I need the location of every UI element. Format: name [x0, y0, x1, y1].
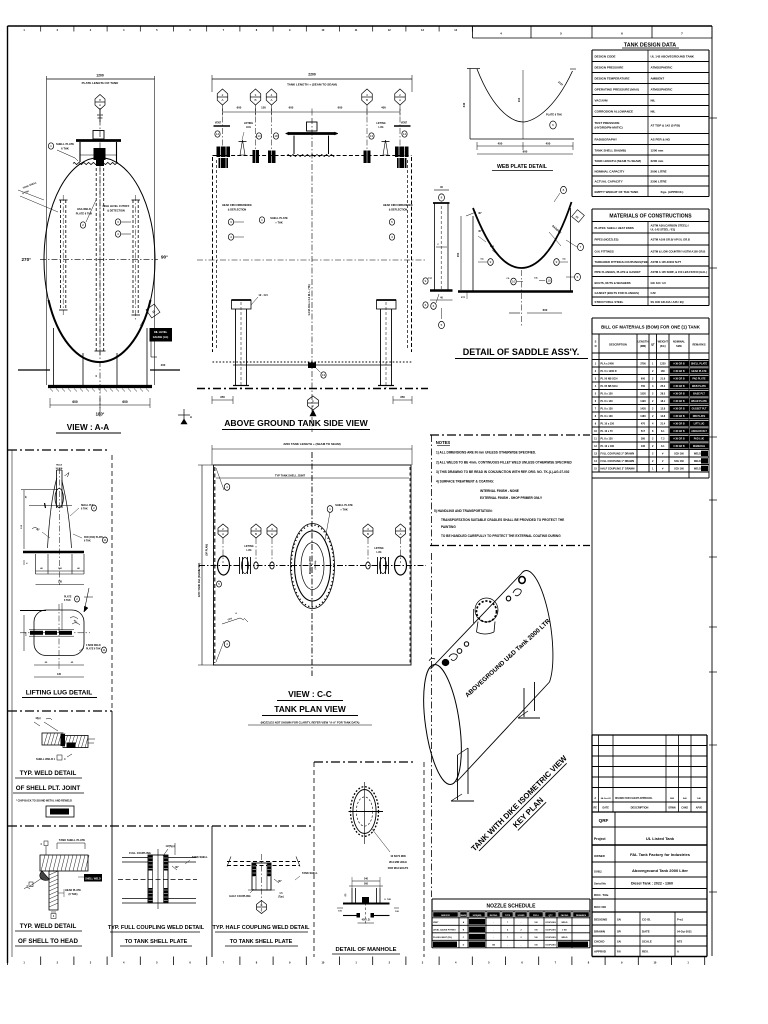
side view title: [222, 418, 370, 430]
svg-text:SCHED: SCHED: [517, 915, 525, 917]
svg-text:(OF PLAN): (OF PLAN): [206, 544, 209, 556]
title block project row: [592, 836, 707, 845]
svg-text:OIL LEVEL: OIL LEVEL: [154, 330, 168, 334]
plan view hex callouts: [218, 524, 406, 563]
svg-text:ANCHOR BLT: ANCHOR BLT: [691, 430, 707, 433]
svg-text:APPRVD: APPRVD: [594, 950, 606, 954]
svg-text:QT: QT: [651, 343, 655, 347]
svg-text:DESIGN PRESSURE: DESIGN PRESSURE: [595, 66, 624, 70]
svg-text:10: 10: [512, 280, 516, 284]
svg-text:540: 540: [364, 878, 369, 881]
shell plate joint weld callout: [36, 754, 72, 761]
svg-text:RIB PLATE: RIB PLATE: [693, 415, 706, 418]
view A-A internal dip pipe center: [95, 168, 106, 355]
svg-text:PLATES: SHELL/ HEAT ENDS: PLATES: SHELL/ HEAT ENDS: [595, 226, 634, 230]
svg-text:SIZE: SIZE: [676, 344, 682, 348]
svg-text:DESCRIPTION: DESCRIPTION: [609, 343, 627, 347]
svg-text:LEVEL GAUGE FITTING: LEVEL GAUGE FITTING: [433, 929, 456, 932]
view A-A manhole assembly: [76, 131, 121, 167]
vertical divider right of full coupling detail: [313, 762, 315, 957]
svg-text:FULL COUPLING 2" DRAWN: FULL COUPLING 2" DRAWN: [601, 452, 635, 455]
plan view manhole rings: [291, 524, 335, 609]
view A-A vertical centerline: [99, 108, 101, 418]
half coupling shell dashed lines: [227, 857, 300, 867]
svg-text:A: A: [594, 797, 596, 800]
tank design data table: [592, 43, 709, 197]
manhole detail bolts note: [372, 829, 409, 870]
svg-text:Aboveground Tank 2000 Liter: Aboveground Tank 2000 Liter: [632, 868, 688, 873]
side view leg leader label: [251, 293, 268, 305]
shell to head top leader: [40, 838, 85, 855]
svg-text:1200: 1200: [96, 74, 104, 78]
vertical divider right of shell-to-head detail: [211, 826, 213, 957]
svg-text:* CHIP BACK TO SOUND METAL AND: * CHIP BACK TO SOUND METAL AND REWELD: [16, 800, 72, 803]
svg-text:NOMINAL CAPACITY: NOMINAL CAPACITY: [595, 169, 625, 173]
svg-text:Diesel Tank : 2022 - 1360: Diesel Tank : 2022 - 1360: [631, 882, 673, 886]
nozzle schedule table: [432, 899, 590, 948]
svg-text:A: A: [221, 98, 223, 102]
svg-text:ASTM A 105-3000# N.PT: ASTM A 105-3000# N.PT: [651, 260, 682, 264]
svg-text:# 36 GR B: # 36 GR B: [673, 362, 685, 365]
plan view horizontal centerline: [199, 565, 426, 567]
svg-text:STRUCTURAL STEEL: STRUCTURAL STEEL: [595, 300, 624, 304]
view A-A title: [56, 423, 121, 433]
svg-text:(6 THK): (6 THK): [69, 893, 78, 896]
svg-text:FAI: FAI: [697, 797, 701, 800]
svg-text:# 36 GR B: # 36 GR B: [673, 407, 685, 410]
svg-text:LUG: LUG: [376, 551, 381, 554]
svg-text:MANHOLE Ø500: MANHOLE Ø500: [309, 555, 312, 574]
svg-text:PL 8 x 140: PL 8 x 140: [601, 400, 614, 403]
title block doc no row: [592, 905, 707, 912]
svg-text:Ø14 MM HOLE: Ø14 MM HOLE: [389, 860, 407, 864]
svg-text:UL Listed Tank: UL Listed Tank: [646, 836, 675, 841]
side view callout leader centerlines: [223, 105, 401, 150]
saddle assembly bottom dimension 600: [509, 308, 562, 313]
svg-text:DESIGN TEMPERATURE: DESIGN TEMPERATURE: [595, 77, 630, 81]
view A-A saddle support legs: [54, 328, 148, 385]
svg-text:TYP: TYP: [428, 278, 433, 280]
vertical divider right of lifting lug column: [111, 455, 113, 957]
svg-text:B: B: [367, 532, 369, 536]
svg-text:PLATE 6 THK: PLATE 6 THK: [86, 648, 101, 651]
side view lifting lug left with label: [239, 122, 254, 155]
svg-text:ASTM & LOW COUNTRY/ ASTM A105: ASTM & LOW COUNTRY/ ASTM A105 GR.B: [651, 249, 706, 253]
svg-text:60°: 60°: [175, 866, 179, 869]
svg-text:AMBIENT: AMBIENT: [651, 77, 665, 81]
svg-text:1190: 1190: [640, 400, 646, 403]
svg-text:PL 8 x 130: PL 8 x 130: [601, 437, 614, 440]
svg-text:WEB PLATE DETAIL: WEB PLATE DETAIL: [497, 164, 548, 170]
svg-text:14: 14: [216, 132, 220, 136]
svg-text:1180: 1180: [640, 415, 646, 418]
svg-text:& DEFLECTION: & DEFLECTION: [228, 209, 247, 212]
svg-text:PLA x 2400: PLA x 2400: [601, 362, 615, 365]
isometric view title rotated: [469, 753, 579, 863]
svg-text:SHELL PLATE: SHELL PLATE: [270, 216, 288, 220]
svg-text:SMI: SMI: [670, 798, 674, 800]
svg-text:1200 mm: 1200 mm: [651, 148, 664, 152]
plan view top dimension 2200: [212, 442, 412, 465]
svg-text:6 THK: 6 THK: [64, 600, 71, 602]
svg-text:350: 350: [400, 395, 405, 399]
svg-text:VACUUM: VACUUM: [595, 99, 608, 103]
svg-text:(KG): (KG): [660, 344, 666, 348]
svg-text:(NOZZLES NOT SHOWN FOR CLARITY: (NOZZLES NOT SHOWN FOR CLARITY, REFER VI…: [261, 721, 360, 725]
svg-text:18: 18: [274, 134, 278, 138]
shell plate joint weld note box: [46, 806, 74, 817]
svg-text:130: 130: [57, 673, 62, 676]
svg-text:ASTM A 105 SORF, & 150 LBS FF#: ASTM A 105 SORF, & 150 LBS FF#150 (GAL): [651, 270, 707, 274]
svg-text:180°: 180°: [96, 412, 105, 417]
svg-text:(8): (8): [345, 893, 347, 896]
svg-text:FULL COUPLING: FULL COUPLING: [129, 851, 151, 855]
half coupling body: [248, 854, 275, 912]
side view saddle wear plate zigzag: [287, 155, 334, 157]
title block outer border: [592, 735, 707, 957]
svg-text:COUPLING: COUPLING: [545, 922, 556, 924]
side view tank top dashed line: [213, 155, 412, 157]
svg-text:900: 900: [523, 150, 528, 154]
manhole detail neck section: [343, 888, 392, 904]
view A-A base plate: [48, 387, 152, 392]
web plate detail labels: [462, 80, 565, 129]
full coupling body: [148, 849, 168, 909]
isometric tank right leg: [518, 682, 540, 718]
side view dimension 2200 top: [212, 73, 412, 93]
svg-text:A: A: [399, 532, 401, 536]
svg-text:470: 470: [641, 422, 646, 425]
svg-text:600: 600: [543, 308, 548, 312]
svg-text:A: A: [399, 98, 401, 102]
materials of constructions table: [592, 209, 709, 306]
svg-text:RADIOGRAPHY: RADIOGRAPHY: [595, 138, 618, 142]
view A-A label level gauge balloons 3 4: [103, 204, 131, 237]
svg-text:600: 600: [641, 377, 646, 380]
full coupling label: [129, 843, 175, 862]
svg-text:450: 450: [546, 142, 551, 146]
svg-text:TANK SHELL: TANK SHELL: [302, 872, 318, 875]
svg-text:ATMOSPHERIC: ATMOSPHERIC: [651, 88, 674, 92]
svg-text:GAUGE (LG): GAUGE (LG): [153, 335, 169, 339]
svg-text:GASKET (BOLTS FOR FLANGES): GASKET (BOLTS FOR FLANGES): [595, 291, 639, 295]
side view tank bottom dotted line: [213, 361, 412, 363]
svg-text:VIEW : A-A: VIEW : A-A: [67, 423, 110, 432]
svg-text:OWNER: OWNER: [594, 854, 605, 858]
svg-text:FOR M12 BOLTS: FOR M12 BOLTS: [388, 866, 409, 870]
svg-text:SS 400/ GR.43A / A36 / EQ: SS 400/ GR.43A / A36 / EQ: [651, 300, 684, 304]
svg-text:SHELL WELD: SHELL WELD: [85, 878, 101, 881]
svg-text:DESIGN CODE: DESIGN CODE: [595, 54, 616, 58]
isometric tank far head arc: [521, 570, 553, 682]
full coupling bevel note: [172, 866, 179, 870]
side view tank left head dashed edges: [213, 157, 217, 352]
svg-text:DATE: DATE: [642, 930, 650, 934]
svg-text:TANK DESIGN DATA: TANK DESIGN DATA: [624, 43, 677, 49]
svg-text:BILL OF MATERIALS (BOM) FOR ON: BILL OF MATERIALS (BOM) FOR ONE (1) TANK: [601, 325, 701, 330]
svg-text:PAD (R10) PLATE: PAD (R10) PLATE: [84, 536, 104, 539]
isometric tank body text: [464, 618, 552, 700]
manhole detail bolt circle rings: [349, 782, 384, 844]
svg-text:TANK LENGTH + (SEAM TO SEAM): TANK LENGTH + (SEAM TO SEAM): [287, 83, 337, 87]
shell plate joint weld leaders: [34, 717, 58, 731]
svg-text:QRF: QRF: [599, 818, 609, 823]
side view nozzle spacing dimension line: [223, 106, 401, 116]
svg-text:TANK SHELL DIA(MB): TANK SHELL DIA(MB): [595, 148, 626, 152]
svg-text:TYP TANK SHELL JOINT: TYP TANK SHELL JOINT: [275, 474, 306, 478]
divider above lifting lug detail: [8, 449, 110, 451]
svg-text:PAINTING: PAINTING: [441, 525, 456, 529]
lifting lug labels right: [32, 505, 107, 543]
svg-text:SHELL PLATE: SHELL PLATE: [56, 142, 74, 146]
lifting lug detail title: [22, 690, 97, 698]
svg-text:COUPLING: COUPLING: [545, 945, 556, 947]
view A-A vent pipe: [97, 110, 103, 122]
manhole detail flange lines below: [337, 903, 400, 924]
svg-text:400: 400: [381, 106, 386, 110]
svg-text:270°: 270°: [21, 257, 31, 262]
web plate detail dimensions: [477, 142, 573, 155]
svg-text:ABOVE GROUND TANK SIDE VIEW: ABOVE GROUND TANK SIDE VIEW: [224, 418, 368, 428]
svg-text:GR. 8.8 / 4.6: GR. 8.8 / 4.6: [651, 281, 667, 285]
svg-text:STF: STF: [461, 297, 466, 299]
svg-text:PROJ.: PROJ.: [533, 915, 539, 917]
svg-text:CAF: CAF: [651, 291, 657, 295]
lifting lug dimension lines upper: [21, 490, 72, 550]
side view right margin balloons: [423, 278, 433, 308]
svg-text:SCH 160: SCH 160: [674, 467, 684, 470]
plan view shell joint line: [216, 474, 409, 479]
title block owner row: [592, 852, 707, 862]
plan view vertical centerline: [311, 452, 313, 676]
svg-text:PL 8 x 130: PL 8 x 130: [601, 415, 614, 418]
svg-text:CO ID.: CO ID.: [642, 918, 651, 922]
svg-text:PLATE LENGTH OF TANK: PLATE LENGTH OF TANK: [82, 81, 120, 85]
svg-text:2000 LITRE: 2000 LITRE: [651, 169, 667, 173]
view A-A ground lines: [18, 363, 180, 370]
svg-text:FILLING INLET (FIL): FILLING INLET (FIL): [433, 937, 452, 939]
svg-text:1520: 1520: [640, 392, 646, 395]
svg-text:HALF COUPLING: HALF COUPLING: [229, 894, 250, 898]
svg-text:TYP. WELD DETAIL: TYP. WELD DETAIL: [20, 770, 77, 777]
lifting lug base dimensions: [36, 567, 85, 585]
svg-text:SUBJ.: SUBJ.: [594, 870, 602, 874]
svg-text:10 NO'S MIN: 10 NO'S MIN: [390, 854, 405, 858]
svg-text:PLATE 6 THK: PLATE 6 THK: [546, 114, 562, 117]
svg-text:PL 50 NB SCH: PL 50 NB SCH: [601, 377, 618, 380]
svg-text:WELD: WELD: [562, 937, 568, 939]
svg-text:PLATE: PLATE: [64, 596, 72, 599]
svg-text:# 36 GR B: # 36 GR B: [673, 392, 685, 395]
svg-text:HEAD PLATE: HEAD PLATE: [691, 370, 707, 373]
svg-text:21.8: 21.8: [660, 377, 665, 380]
svg-text:B: B: [254, 98, 256, 102]
svg-text:CHCKD: CHCKD: [594, 940, 604, 944]
svg-text:PIPES (NOZZLES): PIPES (NOZZLES): [595, 238, 619, 242]
svg-text:SIZE(NB): SIZE(NB): [473, 915, 482, 917]
svg-text:& DETECTION: & DETECTION: [107, 209, 125, 213]
svg-text:4) SURFACE TREATMENT & COATIN: 4) SURFACE TREATMENT & COATING:: [436, 480, 494, 484]
svg-text:1/2(Typ): 1/2(Typ): [166, 845, 175, 848]
svg-text:14: 14: [403, 132, 407, 136]
svg-text:LIFT LUG: LIFT LUG: [694, 422, 705, 425]
plan view tank rectangle: [214, 465, 412, 665]
shell plate joint hatched plates: [42, 733, 95, 748]
svg-text:WEIGHT: WEIGHT: [658, 340, 669, 344]
svg-text:VIEW : C-C: VIEW : C-C: [288, 689, 332, 699]
svg-text:QTY: QTY: [548, 915, 553, 917]
svg-text:11: 11: [103, 538, 106, 542]
svg-text:HSA WELD: HSA WELD: [77, 207, 91, 211]
svg-text:NIL: NIL: [651, 99, 656, 103]
svg-text:OF SHELL TO HEAD: OF SHELL TO HEAD: [18, 938, 78, 945]
svg-text:12.8: 12.8: [660, 407, 665, 410]
svg-text:450: 450: [498, 142, 503, 146]
side view right support leg: [377, 300, 397, 388]
svg-text:SAI: SAI: [683, 797, 687, 800]
svg-text:NIL: NIL: [651, 110, 656, 114]
svg-text:DOC. Title: DOC. Title: [594, 893, 609, 897]
svg-text:RATING: RATING: [490, 914, 498, 917]
svg-text:PL 6 x 1200 D: PL 6 x 1200 D: [601, 370, 617, 373]
svg-text:LIFTING LUG DETAIL: LIFTING LUG DETAIL: [26, 690, 93, 697]
svg-text:400: 400: [161, 363, 166, 367]
svg-text:LUG: LUG: [378, 126, 383, 129]
svg-text:30°: 30°: [478, 212, 482, 215]
svg-text:B: B: [366, 98, 368, 102]
svg-text:28.5: 28.5: [660, 392, 665, 395]
notes text: [434, 440, 573, 538]
svg-text:# 36 GR B: # 36 GR B: [673, 377, 685, 380]
svg-text:3) THIS DRAWING TO BE READ IN: 3) THIS DRAWING TO BE READ IN CONJUNCTIO…: [436, 470, 570, 474]
svg-text:A: A: [271, 532, 273, 536]
svg-text:150: 150: [456, 252, 460, 257]
side view left support leg: [232, 300, 252, 388]
svg-text:PAD PLATE: PAD PLATE: [692, 377, 706, 380]
svg-text:14.8: 14.8: [660, 415, 665, 418]
saddle side elevation column: [430, 185, 453, 329]
side view head circumference label right: [383, 204, 413, 240]
svg-text:11: 11: [102, 648, 105, 652]
svg-text:N: N: [595, 344, 597, 348]
svg-text:SAI: SAI: [617, 941, 621, 944]
left inner border line: [11, 450, 13, 957]
side view manhole assembly center: [286, 122, 339, 154]
svg-text:TRANSPORTATION SUITABLE CRADLE: TRANSPORTATION SUITABLE CRADLES SHALL BE…: [441, 518, 564, 522]
svg-text:LIFTING: LIFTING: [374, 547, 383, 550]
svg-text:LENGTH: LENGTH: [638, 340, 649, 344]
svg-text:ASTM A106 GR.B/ API 5L GR.B: ASTM A106 GR.B/ API 5L GR.B: [651, 238, 690, 242]
saddle assembly main curve: [458, 202, 573, 292]
side view right vent nozzle bar: [394, 123, 411, 127]
svg-text:4 SIDE WELD: 4 SIDE WELD: [86, 644, 101, 647]
svg-text:FACING: FACING: [561, 914, 569, 917]
svg-text:230: 230: [58, 581, 63, 584]
svg-text:UL 142 ABOVEGROUND TANK: UL 142 ABOVEGROUND TANK: [651, 54, 695, 58]
svg-text:REMARKS: REMARKS: [692, 343, 705, 347]
divider above weld details row: [8, 825, 314, 827]
shell to head bottom mark: [51, 912, 56, 919]
svg-text:LUG: LUG: [246, 126, 251, 129]
side view bottom left dimension: [212, 395, 233, 404]
svg-text:SHELL WELD: SHELL WELD: [36, 757, 53, 761]
side view shell plate balloon center: [259, 216, 288, 225]
svg-text:BOLTS, NUTS & WASHERS: BOLTS, NUTS & WASHERS: [595, 281, 631, 285]
plan view small balloon 5: [217, 581, 222, 587]
lifting lug front view eye plate: [55, 465, 69, 509]
svg-text:NOMINAL: NOMINAL: [673, 340, 686, 344]
view A-A rotated tag 15: [140, 304, 160, 326]
side view vertical centerline: [311, 118, 313, 432]
svg-text:# 36 GR B: # 36 GR B: [673, 422, 685, 425]
svg-text:DRWN: DRWN: [668, 808, 675, 810]
svg-text:A: A: [677, 950, 679, 954]
svg-text:FAI: FAI: [617, 951, 621, 954]
svg-text:2300 LITRE: 2300 LITRE: [651, 180, 667, 184]
view A-A dimension 1200 top: [47, 74, 155, 386]
svg-text:# 36 GR B: # 36 GR B: [673, 445, 685, 448]
svg-text:RE: RE: [594, 807, 598, 810]
svg-text:6 THK: 6 THK: [81, 509, 88, 511]
half coupling hex marker: [257, 901, 267, 914]
svg-text:+ THK: + THK: [275, 221, 283, 225]
svg-text:500: 500: [364, 883, 369, 886]
svg-text:# 36 GR B: # 36 GR B: [673, 400, 685, 403]
svg-text:TO TANK SHELL PLATE: TO TANK SHELL PLATE: [230, 939, 293, 945]
shell to head weld fillet: [24, 871, 50, 889]
saddle assembly centerline: [521, 270, 523, 327]
svg-text:TO TANK SHELL PLATE: TO TANK SHELL PLATE: [125, 939, 188, 945]
svg-text:7.2: 7.2: [661, 437, 665, 440]
svg-text:340: 340: [462, 102, 466, 107]
svg-text:SAI: SAI: [617, 919, 621, 922]
svg-text:OPERATING PRESSURE (MAX): OPERATING PRESSURE (MAX): [595, 88, 639, 92]
svg-text:DATE: DATE: [603, 807, 610, 810]
isometric tank body edges: [431, 574, 550, 782]
lifting lug gusset profile: [48, 478, 72, 548]
svg-text:210: 210: [517, 97, 521, 102]
view A-A diagonal leader tank shell note: [18, 181, 58, 212]
svg-text:LIFTING: LIFTING: [244, 122, 253, 125]
right column vertical border continuation: [591, 478, 593, 735]
half coupling title: [213, 925, 311, 946]
svg-text:13: 13: [257, 134, 261, 138]
svg-text:O.N. FITTINGS: O.N. FITTINGS: [595, 249, 614, 253]
svg-text:SCH 160: SCH 160: [674, 452, 684, 455]
svg-text:2200 mm: 2200 mm: [651, 159, 664, 163]
svg-text:TO BE HANDLED CAREFULLY TO PRO: TO BE HANDLED CAREFULLY TO PROTECT THE E…: [441, 534, 561, 538]
svg-text:THREADED FITTINGS-COUPLINGS(TB: THREADED FITTINGS-COUPLINGS(TBE): [595, 260, 649, 264]
svg-text:10: 10: [547, 279, 551, 283]
svg-text:# 36 GR B: # 36 GR B: [673, 437, 685, 440]
svg-text:DETAIL OF SADDLE ASS'Y.: DETAIL OF SADDLE ASS'Y.: [463, 347, 580, 357]
svg-text:WEAR PLATE: WEAR PLATE: [691, 400, 707, 403]
saddle assembly balloons: [478, 186, 584, 285]
svg-text:600: 600: [338, 106, 343, 110]
side view head circumference label left: [222, 204, 252, 240]
svg-text:LUG: LUG: [246, 549, 251, 552]
isometric tank left leg: [451, 748, 474, 801]
svg-text:CHKD: CHKD: [681, 808, 688, 810]
svg-text:PL 8 x 130: PL 8 x 130: [601, 407, 614, 410]
view A-A tank shell ellipse: [44, 158, 155, 363]
svg-text:TANK LENGTH (SEAM To SEAM): TANK LENGTH (SEAM To SEAM): [595, 159, 642, 163]
side view ground line: [197, 388, 428, 390]
svg-text:B: B: [255, 532, 257, 536]
svg-text:PAD LUG: PAD LUG: [694, 437, 705, 440]
view A-A label dip pipe balloon 2: [76, 200, 96, 228]
full coupling shell lines: [122, 858, 196, 904]
